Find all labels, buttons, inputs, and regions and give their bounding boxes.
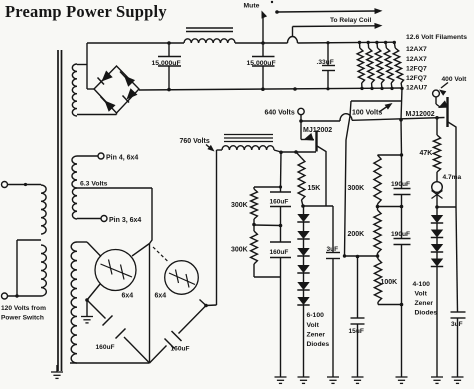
wire midpoint horizontal [254,224,281,227]
svg-text:3uF: 3uF [327,246,339,253]
label 4-100 Volt Zener Diodes [413,281,438,317]
node: divider top [400,153,403,156]
inductor L1 core lines [186,28,233,32]
ground under right zener string [431,377,443,383]
node: right zener top [435,205,439,209]
wire Pin4 lead [77,155,98,157]
svg-text:MJ12002: MJ12002 [303,127,332,134]
resistor R12 47K [433,118,440,182]
ground under C6 [327,377,339,383]
wire 6.3V drop to tube heaters [150,188,153,244]
svg-text:160uF: 160uF [270,249,289,256]
label tube 12FQ7 a [406,66,427,73]
ground under C10 [452,377,464,383]
node: 15000uF-2 top [262,42,264,44]
node: divider mid [376,205,380,209]
svg-text:12FQ7: 12FQ7 [406,66,427,73]
resistor R2 filament dropper [366,42,374,88]
svg-text:12AX7: 12AX7 [406,46,427,53]
node: 15K tap [294,150,298,154]
wire 6.3V center tap [77,187,152,189]
node: rail junction [293,87,297,91]
resistor R11 100K [374,256,401,305]
ground under zener string [298,377,310,383]
diode CR4 (bridge bottom-right edge) [123,88,138,102]
svg-text:100K: 100K [381,279,398,286]
svg-text:160uF: 160uF [270,199,289,206]
tube V2 6x4 envelope [165,261,199,295]
arrow for 100 Volts label [379,103,393,112]
terminal: 120V line input bottom [2,293,8,299]
resistor R10 200K [374,207,381,257]
svg-text:Pin 3, 6x4: Pin 3, 6x4 [109,217,141,224]
transistor Q2 collector wire [448,122,456,207]
transistor Q1 collector wire [317,146,326,206]
wire to relay coil upper [277,8,383,14]
svg-text:47K: 47K [420,150,433,157]
wire hop in top rail [288,37,298,43]
svg-text:15K: 15K [308,185,321,192]
node: R5 bottom [400,87,403,90]
tube V1 internal elements [101,260,133,280]
node: 100K bottom join [400,303,404,307]
wire diagonal V1-ground to bottom vertex (via C11) [87,300,150,363]
wire base rail right segment [352,118,445,121]
zener diodes D1-D6 100V string [297,206,309,377]
transistor Q1 base bar [315,131,317,152]
node: mute switch upper contact [271,1,279,14]
wire 760V riser [217,150,223,305]
label 4.7ma [443,174,462,181]
node: C3 top [326,41,329,44]
svg-text:Volt: Volt [415,291,428,298]
svg-text:MJ12002: MJ12002 [406,111,435,118]
label 300K divider [348,185,365,192]
wire primary tap vertical [16,240,18,296]
svg-text:160uF: 160uF [171,346,190,353]
svg-text:6.3 Volts: 6.3 Volts [80,180,108,187]
wire 640V terminal stub [300,115,302,121]
node: V1 ground junction [85,298,89,302]
svg-text:Power Switch: Power Switch [1,315,44,322]
wire input top to primary [8,184,42,186]
label 6x4 right [155,293,167,300]
transformer T1 primary winding lower section [41,245,46,296]
wire Pin3 lead [77,218,101,220]
resistor R8 15K [296,152,305,206]
capacitor C8 190uF [391,207,411,305]
svg-text:6x4: 6x4 [155,293,167,300]
wire diagonal winding to tube V1 [87,242,101,257]
terminal: Pin 4 6x4 [98,153,104,159]
label Pin 3, 6x4 [109,217,141,224]
node: 300K midpoint [252,223,256,227]
wire 200K bottom horizontal [345,255,378,257]
node: 300K-1 top tee [279,185,282,188]
node: C2 bottom [261,87,265,91]
resistor R9 300K [374,155,381,207]
terminal: 120V line input top [2,182,8,188]
wire bottom horizontal winding3 to vertex [70,362,150,364]
wire hop in base rail [340,114,352,121]
node: 47K tap on base rail [435,116,439,120]
svg-text:Mute: Mute [244,3,260,10]
arrow for 400 Volt label [439,83,448,96]
wire V2 stub [200,300,207,306]
node: R2 bottom [370,87,373,90]
label Mute [244,3,260,10]
inductor L2 core lines [224,135,273,142]
wire top rail right segment [298,41,395,44]
svg-text:120 Volts from: 120 Volts from [1,305,46,312]
capacitor C12 160uF (tilted plates) [165,331,190,353]
transformer T1 primary winding upper section [41,185,46,234]
label 47K [420,150,433,157]
ground under 160uF chain [275,377,287,383]
transformer T1 6.3V winding upper half [72,156,77,188]
diode CR2 (bridge top-right edge) [120,72,135,87]
label 100K [381,279,398,286]
terminal: Pin 3 6x4 [101,216,107,222]
wire divider mid horizontal [378,206,402,208]
node: 15uF tap [356,255,360,259]
label tube 12AX7 a [406,46,427,53]
label 6x4 left [122,293,134,300]
resistor R6 300K upper [251,187,258,225]
wire 15K bottom to 3uF [303,205,333,207]
node: V2 output junction [204,304,208,308]
node: 15000uF-1 top [167,41,171,45]
label 400 Volt [442,76,468,83]
svg-text:12FQ7: 12FQ7 [406,75,427,82]
svg-text:300K: 300K [231,202,248,209]
inductor L1 filter choke [184,39,235,43]
wire vertical from top rail to bridge left vertex [86,43,88,89]
node: bleeder midpoint [279,224,283,228]
svg-text:6x4: 6x4 [122,293,134,300]
transistor Q2 base bar [446,97,448,127]
node: C3 bottom [326,87,329,90]
node: 200K bottom [376,254,380,258]
capacitor C7 190uF [391,155,411,207]
label 12.6 Volt Filaments [406,34,467,41]
ground near tube V1 [81,317,93,323]
capacitor C11 160uF (tilted plates) [96,316,126,352]
svg-text:Diodes: Diodes [307,341,330,348]
wire filament return drop [401,88,402,120]
svg-text:12.6 Volt Filaments: 12.6 Volt Filaments [406,34,467,41]
label 100 Volts [352,110,382,117]
ground under C9 [352,377,364,383]
tube V2 internal elements [169,270,195,288]
svg-text:Zener: Zener [307,332,326,339]
node: R1 bottom [360,87,363,90]
svg-text:15,000uF: 15,000uF [247,60,276,67]
diode CR1 (bridge top-left edge) [98,70,113,84]
svg-text:Pin 4, 6x4: Pin 4, 6x4 [106,155,138,162]
svg-text:300K: 300K [348,185,365,192]
svg-text:15,000uF: 15,000uF [152,60,181,67]
svg-text:Preamp Power Supply: Preamp Power Supply [5,2,167,21]
capacitor C9 15uF [349,257,365,378]
lamp/meter symbol [432,182,443,199]
node: R3 bottom [380,87,383,90]
ground under transformer core [51,365,63,378]
node: R5 top [393,41,396,44]
wire collector join horizontal [437,206,456,208]
wire winding3 top lead [77,241,87,243]
svg-text:Volt: Volt [307,322,320,329]
svg-text:190uF: 190uF [391,231,410,238]
svg-text:12AX7: 12AX7 [406,56,427,63]
node: 640V junction [299,119,303,123]
label MJ12002 (Q2) [406,111,435,118]
diode CR3 (bridge bottom-left edge) [101,97,116,112]
wire choke L2 output to Q1 base [274,150,316,152]
capacitor C5 160uF [270,226,292,378]
wire branch up from rail to relay line [292,27,294,37]
svg-text:To Relay Coil: To Relay Coil [330,17,371,24]
wire 160uF chain top [280,152,283,187]
wire 190uF column to ground [401,305,403,378]
svg-text:6-100: 6-100 [307,312,325,319]
transistor Q1 MJ12002 emitter wire [301,121,314,140]
wire 100V branch horizontal [351,100,402,102]
svg-text:300K: 300K [231,247,248,254]
wire diagonal vertex to V2 (via C12) [150,306,207,364]
svg-text:.33uF: .33uF [317,59,334,66]
node: zener string top [301,204,305,208]
label tube 12FQ7 b [406,75,427,82]
transistor Q2 MJ12002 emitter wire [436,97,440,107]
wire top rail left segment [87,42,184,44]
label 640 Volts [265,110,295,117]
arrow for 760 Volts label [206,145,215,152]
wire to relay coil lower [293,23,383,29]
node: base rail to 190uF column [399,118,403,122]
label tube 12AU7 [406,85,427,92]
node: mute switch bottom [261,41,265,45]
svg-text:640 Volts: 640 Volts [265,110,295,117]
terminal: 640 Volts output [298,108,304,114]
wire 300K-1 top horizontal [254,186,281,188]
node: tap joins bottom input [15,294,18,297]
wire junction to 760V riser [206,304,217,307]
node: R2 top [367,41,370,44]
transistor Q1 emitter arrow [304,133,314,141]
label 6.3 Volts [80,180,108,187]
svg-text:4.7ma: 4.7ma [443,174,462,181]
wire HV winding top lead [77,64,87,66]
node: C1 bottom [167,88,171,92]
wire base rail left segment [301,120,340,122]
label MJ12002 (Q1) [303,127,332,134]
node: junction on top input wire [24,183,27,186]
wire center vertical to bottom vertex [149,244,151,364]
terminal: 400 Volt output [433,90,440,97]
capacitor C1 15,000uF (first filter) [152,43,182,89]
capacitor C4 160uF [270,187,292,226]
capacitor C2 15,000uF (second filter) [247,43,276,89]
svg-text:Diodes: Diodes [415,310,438,317]
svg-text:190uF: 190uF [391,181,410,188]
label 6-100 Volt Zener Diodes [307,312,330,348]
capacitor C10 3uF [451,207,466,377]
wire bottom return rail [139,88,402,90]
wire tube V1 cathode diagonal [87,284,101,301]
title text [5,2,167,21]
wire 190uF column upper [400,120,403,155]
wire input bottom to primary [8,295,42,297]
node: R4 top [384,41,387,44]
transformer T1 HV secondary winding (tube rectifier) [71,242,77,363]
label Pin 4, 6x4 [106,155,138,162]
label 200K [348,231,365,238]
transformer T1 6.3V winding lower half [72,188,77,219]
capacitor C3 .33uF [317,43,336,89]
node: R3 top [375,41,378,44]
wire lamp to zener string [436,192,438,207]
resistor R7 300K lower [251,225,281,278]
node: R1 top [358,41,361,44]
wire diagonal apex to tube V1 [132,244,150,257]
switch S1 Mute [262,11,268,44]
label tube 12AX7 b [406,56,427,63]
svg-text:3uF: 3uF [451,321,463,328]
svg-text:15uF: 15uF [349,328,364,335]
svg-text:12AU7: 12AU7 [406,85,427,92]
svg-text:Zener: Zener [415,300,434,307]
svg-text:160uF: 160uF [96,344,115,351]
label 120 Volts from Power Switch [1,305,46,322]
transistor Q2 emitter arrow [438,100,448,108]
label 300K lower [231,247,248,254]
inductor L2 choke [222,146,274,150]
label 760 Volts [180,138,210,145]
svg-text:400 Volt: 400 Volt [442,76,468,83]
resistor R3 filament dropper [375,42,384,88]
resistor R1 filament dropper [357,42,364,88]
node: R4 bottom [390,87,393,90]
resistor R4 filament dropper [384,42,394,88]
wire divider top horizontal [378,154,402,156]
tube V1 6x4 envelope [95,250,136,291]
node: 100V divider join [343,254,346,257]
node: 160uF chain tap [279,151,283,155]
wire 100V branch vertical crossing base rail [345,101,352,256]
label 15K [308,185,321,192]
wire HV winding bottom lead to bridge bottom vertex [77,113,117,115]
wire top rail middle segment [235,42,288,44]
node: 190uF-1 bottom junction [400,205,404,209]
resistor R5 filament dropper [393,42,403,88]
bridge rectifier diamond [94,66,139,113]
ground under 190uF column [396,377,408,383]
wire primary tap horizontal [17,239,41,241]
capacitor C6 3uF [326,206,340,377]
svg-text:100 Volts: 100 Volts [352,110,382,117]
wire dashed heater diagonal to tube V2 [153,247,169,263]
zener diodes D7-D10 100V string [431,207,443,377]
svg-text:760 Volts: 760 Volts [180,138,210,145]
svg-text:4-100: 4-100 [413,281,431,288]
transformer T1 core [58,50,62,371]
transformer T1 HV secondary winding (bridge) [72,64,77,116]
label 300K upper [231,202,248,209]
label To Relay Coil [330,17,371,24]
svg-text:200K: 200K [348,231,365,238]
wire V1 ground stem [86,300,88,317]
wire to bridge left vertex [87,88,94,90]
